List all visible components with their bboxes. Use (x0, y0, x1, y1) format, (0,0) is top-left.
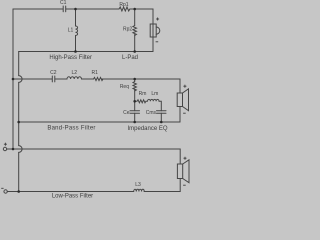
svg-text:Impedance EQ: Impedance EQ (127, 126, 167, 132)
svg-text:C1: C1 (60, 0, 67, 6)
svg-text:Rp2: Rp2 (123, 27, 132, 33)
resistor Req (133, 79, 136, 111)
inductor L1 (76, 9, 78, 52)
terminal plus (3, 147, 6, 150)
node: Req bottom / Rm branch (133, 100, 136, 103)
wire: return bus vertical x=18.7 with hops (19, 52, 22, 192)
svg-text:L2: L2 (72, 70, 78, 76)
svg-text:Band-Pass Filter: Band-Pass Filter (47, 125, 95, 131)
svg-text:Lm: Lm (151, 91, 158, 97)
svg-text:L1: L1 (68, 28, 74, 34)
resistor Rp2 (133, 9, 137, 52)
wire: L2 to R1 (82, 78, 94, 80)
svg-text:L-Pad: L-Pad (122, 55, 138, 61)
node: row2 return bus tap (17, 121, 20, 124)
svg-text:High-Pass Filter: High-Pass Filter (49, 55, 92, 61)
wire: row2 return y=122 (19, 121, 180, 123)
speaker woofer body (177, 160, 189, 192)
label woofer minus (183, 184, 186, 186)
node: Rp2 tap (133, 8, 136, 11)
capacitor Cms (157, 111, 167, 122)
node: Cms bottom (160, 121, 163, 124)
node: plus terminal junction (12, 148, 15, 151)
svg-text:Rp1: Rp1 (119, 2, 128, 8)
svg-text:Cms: Cms (146, 110, 157, 116)
terminal minus (4, 190, 7, 193)
capacitor C1 (63, 6, 65, 12)
node: Req tap (133, 78, 136, 81)
label tweeter minus (156, 41, 159, 43)
inductor L2 (67, 77, 81, 79)
svg-text:Ce: Ce (123, 110, 130, 116)
capacitor C2 (52, 76, 55, 82)
wire: L3 to woofer (144, 191, 180, 193)
node: minus terminal junction (17, 190, 20, 193)
svg-text:Rm: Rm (139, 91, 147, 97)
node: C1/L1 tap (74, 8, 77, 11)
label plus sign input (4, 143, 7, 146)
wire: plus wire y=149 (7, 149, 181, 164)
label midrange minus (183, 112, 186, 114)
svg-text:Low-Pass Filter: Low-Pass Filter (52, 193, 93, 199)
svg-text:L3: L3 (135, 182, 141, 188)
speaker midrange body (177, 89, 188, 122)
wire: row1 return y=51.5 (19, 51, 153, 53)
resistor R1 (94, 77, 104, 80)
svg-text:Req: Req (120, 84, 129, 90)
wire: hot bus vertical x=13 (12, 9, 14, 149)
node: L1 bottom (74, 50, 77, 53)
inductor Lm (148, 99, 162, 110)
wire: minus wire y=191.5 (7, 191, 133, 193)
resistor Rm (135, 100, 147, 103)
wire: row2 hot y=79 (13, 78, 52, 80)
node: Ce bottom (133, 121, 136, 124)
wire: row1 top wire segments (13, 8, 63, 10)
node: row2 hot tap (12, 78, 15, 81)
label woofer plus (184, 157, 187, 160)
svg-text:R1: R1 (91, 70, 98, 76)
resistor Rp1 (119, 7, 130, 11)
wire: C2 to L2 (55, 78, 67, 80)
wire: Rp1 to tweeter corner (130, 9, 153, 24)
inductor L3 (134, 189, 144, 191)
label tweeter plus (156, 18, 159, 21)
wire: C1 to Rp1 (66, 8, 119, 10)
svg-text:C2: C2 (50, 70, 57, 76)
node: Rp2 bottom (133, 50, 136, 53)
capacitor Ce (130, 111, 140, 122)
speaker tweeter body (150, 24, 160, 52)
label minus sign input (1, 187, 3, 189)
wire: R1 to speaker2 corner (102, 79, 181, 93)
label midrange plus (183, 85, 186, 88)
